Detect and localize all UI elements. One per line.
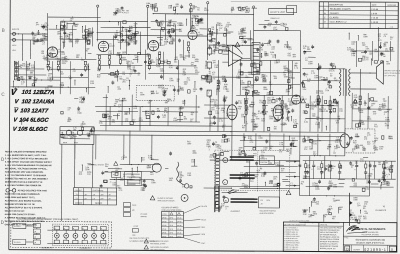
svg-text:R1: R1 [265,113,267,115]
svg-text:.1: .1 [327,87,329,89]
svg-text:1M: 1M [323,216,326,218]
svg-text:C7: C7 [390,39,392,41]
svg-text:2 023776 TUBE 6L6: 2 023776 TUBE 6L6 [284,247,298,249]
svg-text:C2: C2 [121,159,123,161]
svg-text:SP-4B: SP-4B [177,236,181,238]
svg-text:100K: 100K [252,93,257,95]
svg-text:470: 470 [215,146,218,148]
svg-text:12AX7: 12AX7 [198,33,204,36]
svg-text:.047: .047 [69,78,73,80]
svg-text:LOW: LOW [12,50,16,52]
svg-text:220K: 220K [201,79,206,81]
svg-text:R9: R9 [332,218,334,220]
svg-text:1500: 1500 [187,143,191,145]
svg-text:.1: .1 [283,74,285,76]
svg-text:WIRE COLOR SHOWN: WIRE COLOR SHOWN [158,200,176,202]
svg-text:R9: R9 [173,26,175,28]
svg-text:LED HARDWARE ARRANGEMENT (ON B: LED HARDWARE ARRANGEMENT (ON BACK PANEL … [17,218,78,221]
svg-text:C24: C24 [250,181,253,183]
svg-text:100K: 100K [160,71,165,73]
svg-text:.047: .047 [156,93,160,95]
svg-text:1500: 1500 [389,138,393,140]
svg-text:4. ALL VOLTAGES MEASURED TO GR: 4. ALL VOLTAGES MEASURED TO GROUND W/ [5,164,52,167]
svg-text:C2: C2 [134,25,136,27]
svg-text:100K: 100K [122,100,127,102]
svg-text:TO SPLD: TO SPLD [14,242,22,244]
svg-text:.1: .1 [383,114,385,116]
svg-text:1. ALL RESISTORS 1/4 WATT, 5 P: 1. ALL RESISTORS 1/4 WATT, 5 PCT. 2 EA. [5,154,47,157]
svg-text:220K: 220K [146,55,151,57]
svg-text:AS RED COLORED FOR THIS: AS RED COLORED FOR THIS [18,189,48,192]
svg-text:LP: LP [34,226,36,228]
svg-text:1.6: 1.6 [93,198,95,200]
svg-text:470: 470 [367,135,370,137]
svg-text:ALTERNATE LEAD BOUND STATION,: ALTERNATE LEAD BOUND STATION, [5,199,42,202]
svg-text:100K: 100K [118,100,123,102]
svg-text:C2: C2 [168,8,170,10]
svg-text:.1: .1 [382,166,384,168]
svg-text:1500: 1500 [333,186,337,188]
svg-text:R1: R1 [183,60,185,62]
svg-text:SP-8: SP-8 [169,236,173,238]
svg-text:C2: C2 [384,36,386,38]
svg-text:3. SEE CHART VOLTAGE AND POWER: 3. SEE CHART VOLTAGE AND POWER SUPPLY [5,161,52,164]
svg-text:.1: .1 [219,30,221,32]
svg-text:470: 470 [378,40,381,42]
svg-text:.1: .1 [44,36,46,38]
svg-text:470: 470 [125,121,128,123]
svg-text:T1: T1 [76,194,78,196]
svg-text:SP-8B: SP-8B [162,229,166,231]
svg-text:1M: 1M [224,86,227,88]
svg-text:220K: 220K [245,12,250,14]
svg-text:C7: C7 [193,8,195,10]
svg-text:R1: R1 [272,57,274,59]
svg-text:R12: R12 [41,27,44,29]
svg-text:RELEASED (CHART): RELEASED (CHART) [330,8,351,11]
svg-text:12AX7: 12AX7 [109,45,115,48]
svg-text:R1: R1 [270,148,272,150]
svg-text:R12: R12 [97,77,100,79]
svg-text:.1: .1 [270,54,272,56]
svg-text:L1/SW: L1/SW [133,226,138,228]
svg-text:1-15-88: 1-15-88 [371,18,379,20]
svg-text:GROUND SYSTEM SET TO TB: GROUND SYSTEM SET TO TB [5,204,35,206]
svg-text:.1: .1 [372,143,374,145]
svg-text:ALL MAIN SUPPLY SET TO 2 STRAP: ALL MAIN SUPPLY SET TO 2 STRAPS. [5,206,43,209]
svg-text:R9: R9 [294,125,296,127]
svg-text:R12: R12 [353,142,356,144]
svg-text:.047: .047 [44,38,48,40]
svg-text:FOOTSW: FOOTSW [260,162,268,164]
svg-text:R9: R9 [384,44,386,46]
svg-text:220K: 220K [286,91,291,93]
svg-text:ASSEMBLY B: ASSEMBLY B [41,246,53,249]
svg-text:SP-8: SP-8 [170,221,174,223]
svg-text:CL ARTS: CL ARTS [330,16,339,19]
svg-text:220K: 220K [244,187,249,189]
svg-text:REMOTE: REMOTE [260,158,267,160]
svg-text:NO SIGNAL. VOLTAGES SHOWN TYPI: NO SIGNAL. VOLTAGES SHOWN TYPICAL, [5,167,48,170]
svg-text:100K: 100K [363,36,368,38]
svg-text:C24: C24 [379,148,382,150]
svg-text:R12: R12 [227,141,230,143]
svg-text:.1: .1 [243,139,245,141]
svg-text:C24: C24 [311,109,314,111]
svg-text:R9: R9 [382,177,384,179]
svg-text:C24: C24 [120,180,123,182]
svg-text:220K: 220K [26,70,31,72]
svg-text:C24: C24 [117,187,120,189]
svg-text:R1: R1 [209,73,211,75]
svg-text:1500: 1500 [385,125,389,127]
svg-text:WIRING: WIRING [140,216,147,218]
svg-text:100K: 100K [245,77,250,79]
svg-text:.1: .1 [328,211,330,213]
svg-text:3 013442 RES 100K: 3 013442 RES 100K [284,240,299,242]
svg-text:.047: .047 [69,138,73,140]
svg-text:TO SPLD: TO SPLD [14,226,22,228]
svg-text:R1: R1 [114,105,116,107]
svg-text:1M: 1M [176,81,179,83]
svg-text:C24: C24 [366,178,369,180]
svg-text:C24: C24 [313,143,316,145]
svg-text:C24: C24 [122,54,125,56]
svg-text:C7: C7 [223,112,225,114]
svg-text:R12: R12 [261,120,264,122]
svg-text:220K: 220K [263,89,268,91]
svg-text:101 12BZ7A: 101 12BZ7A [21,90,55,96]
svg-text:1500: 1500 [127,65,131,67]
svg-text:R9: R9 [116,32,118,34]
svg-text:.1: .1 [320,173,322,175]
svg-text:C7: C7 [328,183,330,185]
svg-text:SP-8B: SP-8B [162,221,166,223]
svg-text:RESISTORS IN PC B-D CIRCUITS T: RESISTORS IN PC B-D CIRCUITS TYP. [5,182,43,184]
svg-text:100K: 100K [258,138,263,140]
svg-text:1M: 1M [333,153,336,155]
svg-text:105 6L6GC: 105 6L6GC [18,127,49,133]
svg-text:40 WATT AMPLIFIER P.C.B.: 40 WATT AMPLIFIER P.C.B. [356,242,385,245]
svg-text:1-8-88: 1-8-88 [371,13,378,15]
svg-text:C24: C24 [191,162,194,164]
svg-text:.022: .022 [363,218,367,220]
svg-text:MUSICAL INSTRUMENTS: MUSICAL INSTRUMENTS [357,228,385,231]
svg-text:.022: .022 [85,38,89,40]
svg-text:1500: 1500 [117,54,121,56]
svg-text:.022: .022 [131,35,135,37]
svg-text:.022: .022 [309,149,313,151]
svg-text:220K: 220K [264,54,269,56]
svg-text:.1: .1 [254,82,256,84]
svg-text:1M: 1M [214,102,217,104]
svg-text:C2: C2 [81,102,83,104]
svg-text:.047: .047 [212,62,216,64]
svg-text:C2: C2 [231,9,233,11]
svg-text:SP-4B: SP-4B [177,229,181,231]
svg-text:C7: C7 [68,109,70,111]
svg-text:SCHEMATIC DIAGRAM FOR: SCHEMATIC DIAGRAM FOR [356,239,386,242]
svg-text:C2: C2 [366,59,368,61]
svg-text:470: 470 [336,139,339,141]
svg-text:SCHEM: SCHEM [353,249,360,251]
svg-text:.1: .1 [160,41,162,43]
svg-text:C24: C24 [180,25,183,27]
svg-text:470: 470 [212,53,215,55]
svg-text:2-13-88: 2-13-88 [371,9,379,11]
svg-text:R9: R9 [191,114,193,116]
svg-text:SP-8: SP-8 [169,225,173,227]
svg-text:READY LP: READY LP [271,17,281,20]
svg-text:C2: C2 [347,49,349,51]
svg-text:100K: 100K [179,57,184,59]
svg-text:CB ASSY: CB ASSY [330,12,340,15]
svg-text:220K: 220K [179,108,184,110]
svg-text:.022: .022 [117,89,121,91]
svg-text:.1: .1 [208,149,210,151]
svg-text:220K: 220K [273,29,278,31]
svg-text:C24: C24 [385,51,388,53]
svg-text:220K: 220K [382,106,387,108]
svg-text:.047: .047 [141,159,145,161]
svg-text:R1: R1 [86,50,88,52]
svg-text:5. A = TO CONTROLS NEXT TO SP: 5. A = TO CONTROLS NEXT TO SPEAKER [5,174,47,177]
svg-text:R9: R9 [303,48,305,50]
svg-text:1500: 1500 [315,185,319,187]
svg-text:C7: C7 [265,55,267,57]
svg-text:C24: C24 [75,41,78,43]
svg-text:.022: .022 [383,101,387,103]
svg-text:1M: 1M [133,69,136,71]
svg-text:R12: R12 [268,25,271,27]
svg-text:.022: .022 [353,185,357,187]
svg-text:.1: .1 [118,113,120,115]
svg-text:LP: LP [34,231,36,233]
svg-text:.1: .1 [129,76,131,78]
svg-text:1M: 1M [134,57,137,59]
svg-text:R1: R1 [63,30,65,32]
svg-text:R12: R12 [317,169,320,171]
svg-text:1M: 1M [176,6,179,8]
svg-text:1M: 1M [164,62,167,64]
svg-text:C24: C24 [57,60,60,62]
svg-text:220K: 220K [195,72,200,74]
svg-text:C24: C24 [259,102,262,104]
svg-text:C24: C24 [267,103,270,105]
svg-text:0 2 1 8 9 5 - 1: 0 2 1 8 9 5 - 1 [364,248,386,252]
svg-text:R1: R1 [305,60,307,62]
svg-text:1500: 1500 [180,90,184,92]
svg-text:C24: C24 [339,111,342,113]
svg-text:R12: R12 [355,147,358,149]
svg-text:C7: C7 [246,123,248,125]
svg-text:T1: T1 [76,198,78,200]
svg-text:SW2: SW2 [232,189,236,191]
svg-text:R12: R12 [374,126,377,128]
svg-text:.022: .022 [259,56,263,58]
svg-text:R12: R12 [79,174,82,176]
svg-text:1M: 1M [307,81,310,83]
svg-text:100K: 100K [308,63,313,65]
svg-text:SELECT ON TO 5VT:: SELECT ON TO 5VT: [5,211,25,213]
svg-text:220K: 220K [241,116,246,118]
svg-text:C7: C7 [126,13,128,15]
svg-text:.047: .047 [87,135,91,137]
svg-text:C2: C2 [332,65,334,67]
svg-text:.1: .1 [215,144,217,146]
svg-text:.047: .047 [149,6,153,8]
svg-text:.022: .022 [333,200,337,202]
svg-text:.047: .047 [60,74,64,76]
svg-text:BLACK: BLACK [202,205,208,208]
svg-text:R1: R1 [301,183,303,185]
svg-text:220K: 220K [85,169,90,171]
svg-text:1500: 1500 [287,71,291,73]
svg-text:C2: C2 [354,219,356,221]
svg-text:470: 470 [162,91,165,93]
svg-text:104 6L6GC: 104 6L6GC [19,118,50,124]
svg-text:1500: 1500 [206,146,210,148]
svg-text:PRODUCTION IS FORBID: PRODUCTION IS FORBID [320,239,340,241]
svg-text:.1: .1 [386,176,388,178]
svg-text:1.6: 1.6 [93,194,95,196]
svg-text:DESCRIPTION: DESCRIPTION [329,4,343,6]
svg-text:A AC PLT: A AC PLT [75,189,82,192]
svg-text:470: 470 [73,71,76,73]
svg-text:.022: .022 [69,34,73,36]
svg-text:.022: .022 [169,180,173,182]
svg-text:220K: 220K [145,113,150,115]
svg-text:SP-4B: SP-4B [177,217,181,219]
svg-text:100K: 100K [151,182,156,184]
svg-text:R9: R9 [167,101,169,103]
svg-text:R12: R12 [160,23,163,25]
svg-text:100K: 100K [292,104,297,106]
svg-text:C7: C7 [283,125,285,127]
svg-text:P1: P1 [113,174,115,176]
svg-text:SP-8B: SP-8B [162,232,166,234]
svg-text:R9: R9 [242,127,244,129]
svg-text:.047: .047 [271,49,275,51]
svg-text:.047: .047 [162,117,166,119]
svg-text:100K: 100K [374,51,379,53]
svg-text:SAME RED COLORED TERMINALS:: SAME RED COLORED TERMINALS: [5,193,41,196]
svg-text:1500: 1500 [77,113,81,115]
svg-text:102 12AU6A: 102 12AU6A [21,99,55,105]
svg-text:C2: C2 [250,87,252,89]
svg-text:.022: .022 [60,87,64,89]
svg-text:.022: .022 [386,63,390,65]
svg-text:1-19-88: 1-19-88 [371,22,379,24]
svg-text:C7: C7 [50,81,52,83]
svg-text:2AT: 2AT [101,193,104,196]
svg-text:1M: 1M [209,157,212,159]
svg-text:CONNECTED PINS TO JK7 JKB ASSE: CONNECTED PINS TO JK7 JKB ASSEMBLY [5,177,49,180]
svg-text:C2: C2 [222,127,224,129]
svg-text:.022: .022 [167,26,171,28]
svg-text:R9: R9 [327,84,329,86]
svg-text:C24: C24 [216,108,219,110]
svg-text:.1: .1 [320,120,322,122]
svg-text:.022: .022 [184,84,188,86]
svg-text:INSTRUMENTS CORP. RE: INSTRUMENTS CORP. RE [320,237,339,239]
svg-text:W: W [224,160,226,162]
svg-text:R9: R9 [311,104,313,106]
svg-text:B: B [2,28,5,33]
svg-text:SP-8B: SP-8B [162,236,166,238]
svg-text:.047: .047 [373,113,377,115]
svg-text:WHT: WHT [201,243,205,245]
svg-text:C2: C2 [70,20,72,22]
svg-text:SP-8B: SP-8B [162,217,166,219]
svg-text:220K: 220K [193,153,198,155]
svg-text:100K: 100K [240,83,245,85]
svg-text:R12: R12 [288,49,291,51]
svg-text:P2B: P2B [132,235,135,237]
svg-text:.022: .022 [350,107,354,109]
svg-text:.1: .1 [118,107,120,109]
svg-text:1500: 1500 [284,76,288,78]
svg-text:ALIGN FOR CAPACITY STRAP:: ALIGN FOR CAPACITY STRAP: [5,213,36,216]
svg-text:R9: R9 [165,90,167,92]
svg-text:R1: R1 [197,10,199,12]
svg-text:LP: LP [34,237,36,239]
svg-text:1M: 1M [193,91,196,93]
svg-text:.047: .047 [150,174,154,176]
svg-text:R12: R12 [133,108,136,110]
svg-text:R12: R12 [97,70,100,72]
svg-text:1500: 1500 [269,118,273,120]
svg-text:1500: 1500 [173,120,177,122]
svg-text:R9: R9 [321,107,323,109]
svg-text:220K: 220K [359,122,364,124]
svg-text:ARE AVERAGE 120V LINE CONDITIO: ARE AVERAGE 120V LINE CONDITION. [5,171,44,174]
svg-text:DATE: DATE [372,4,377,7]
svg-text:SP-8: SP-8 [169,229,173,231]
svg-text:SP-8: SP-8 [170,217,174,219]
svg-text:C2: C2 [358,218,360,220]
svg-text:100K: 100K [151,93,156,95]
svg-text:ASSEMBLY A: ASSEMBLY A [79,247,91,250]
svg-text:1500: 1500 [315,124,319,126]
svg-text:100K: 100K [385,119,390,121]
svg-text:INPUTS: INPUTS [12,29,20,31]
svg-text:220K: 220K [62,63,67,65]
svg-text:220K: 220K [139,120,144,122]
svg-text:R1: R1 [387,111,389,113]
svg-text:.022: .022 [273,78,277,80]
svg-text:1M: 1M [115,170,118,172]
svg-text:C7: C7 [352,151,354,153]
svg-text:C24: C24 [276,108,279,110]
svg-text:220K: 220K [253,126,258,128]
svg-text:R9: R9 [355,163,357,165]
svg-text:R9: R9 [183,71,185,73]
svg-text:SP-8B: SP-8B [162,225,166,227]
svg-text:R1: R1 [200,21,202,23]
svg-text:470: 470 [356,137,359,139]
svg-text:.022: .022 [44,29,48,31]
svg-text:R9: R9 [266,94,268,96]
svg-text:100K: 100K [195,61,200,63]
svg-text:220K: 220K [312,202,317,204]
svg-text:C24: C24 [368,176,371,178]
svg-text:.022: .022 [364,213,368,215]
svg-text:C24: C24 [87,174,90,176]
svg-text:SP-4B: SP-4B [177,232,181,234]
svg-text:R12: R12 [267,100,270,102]
svg-text:FOR EACH SPKR MODEL: FOR EACH SPKR MODEL [161,209,181,212]
